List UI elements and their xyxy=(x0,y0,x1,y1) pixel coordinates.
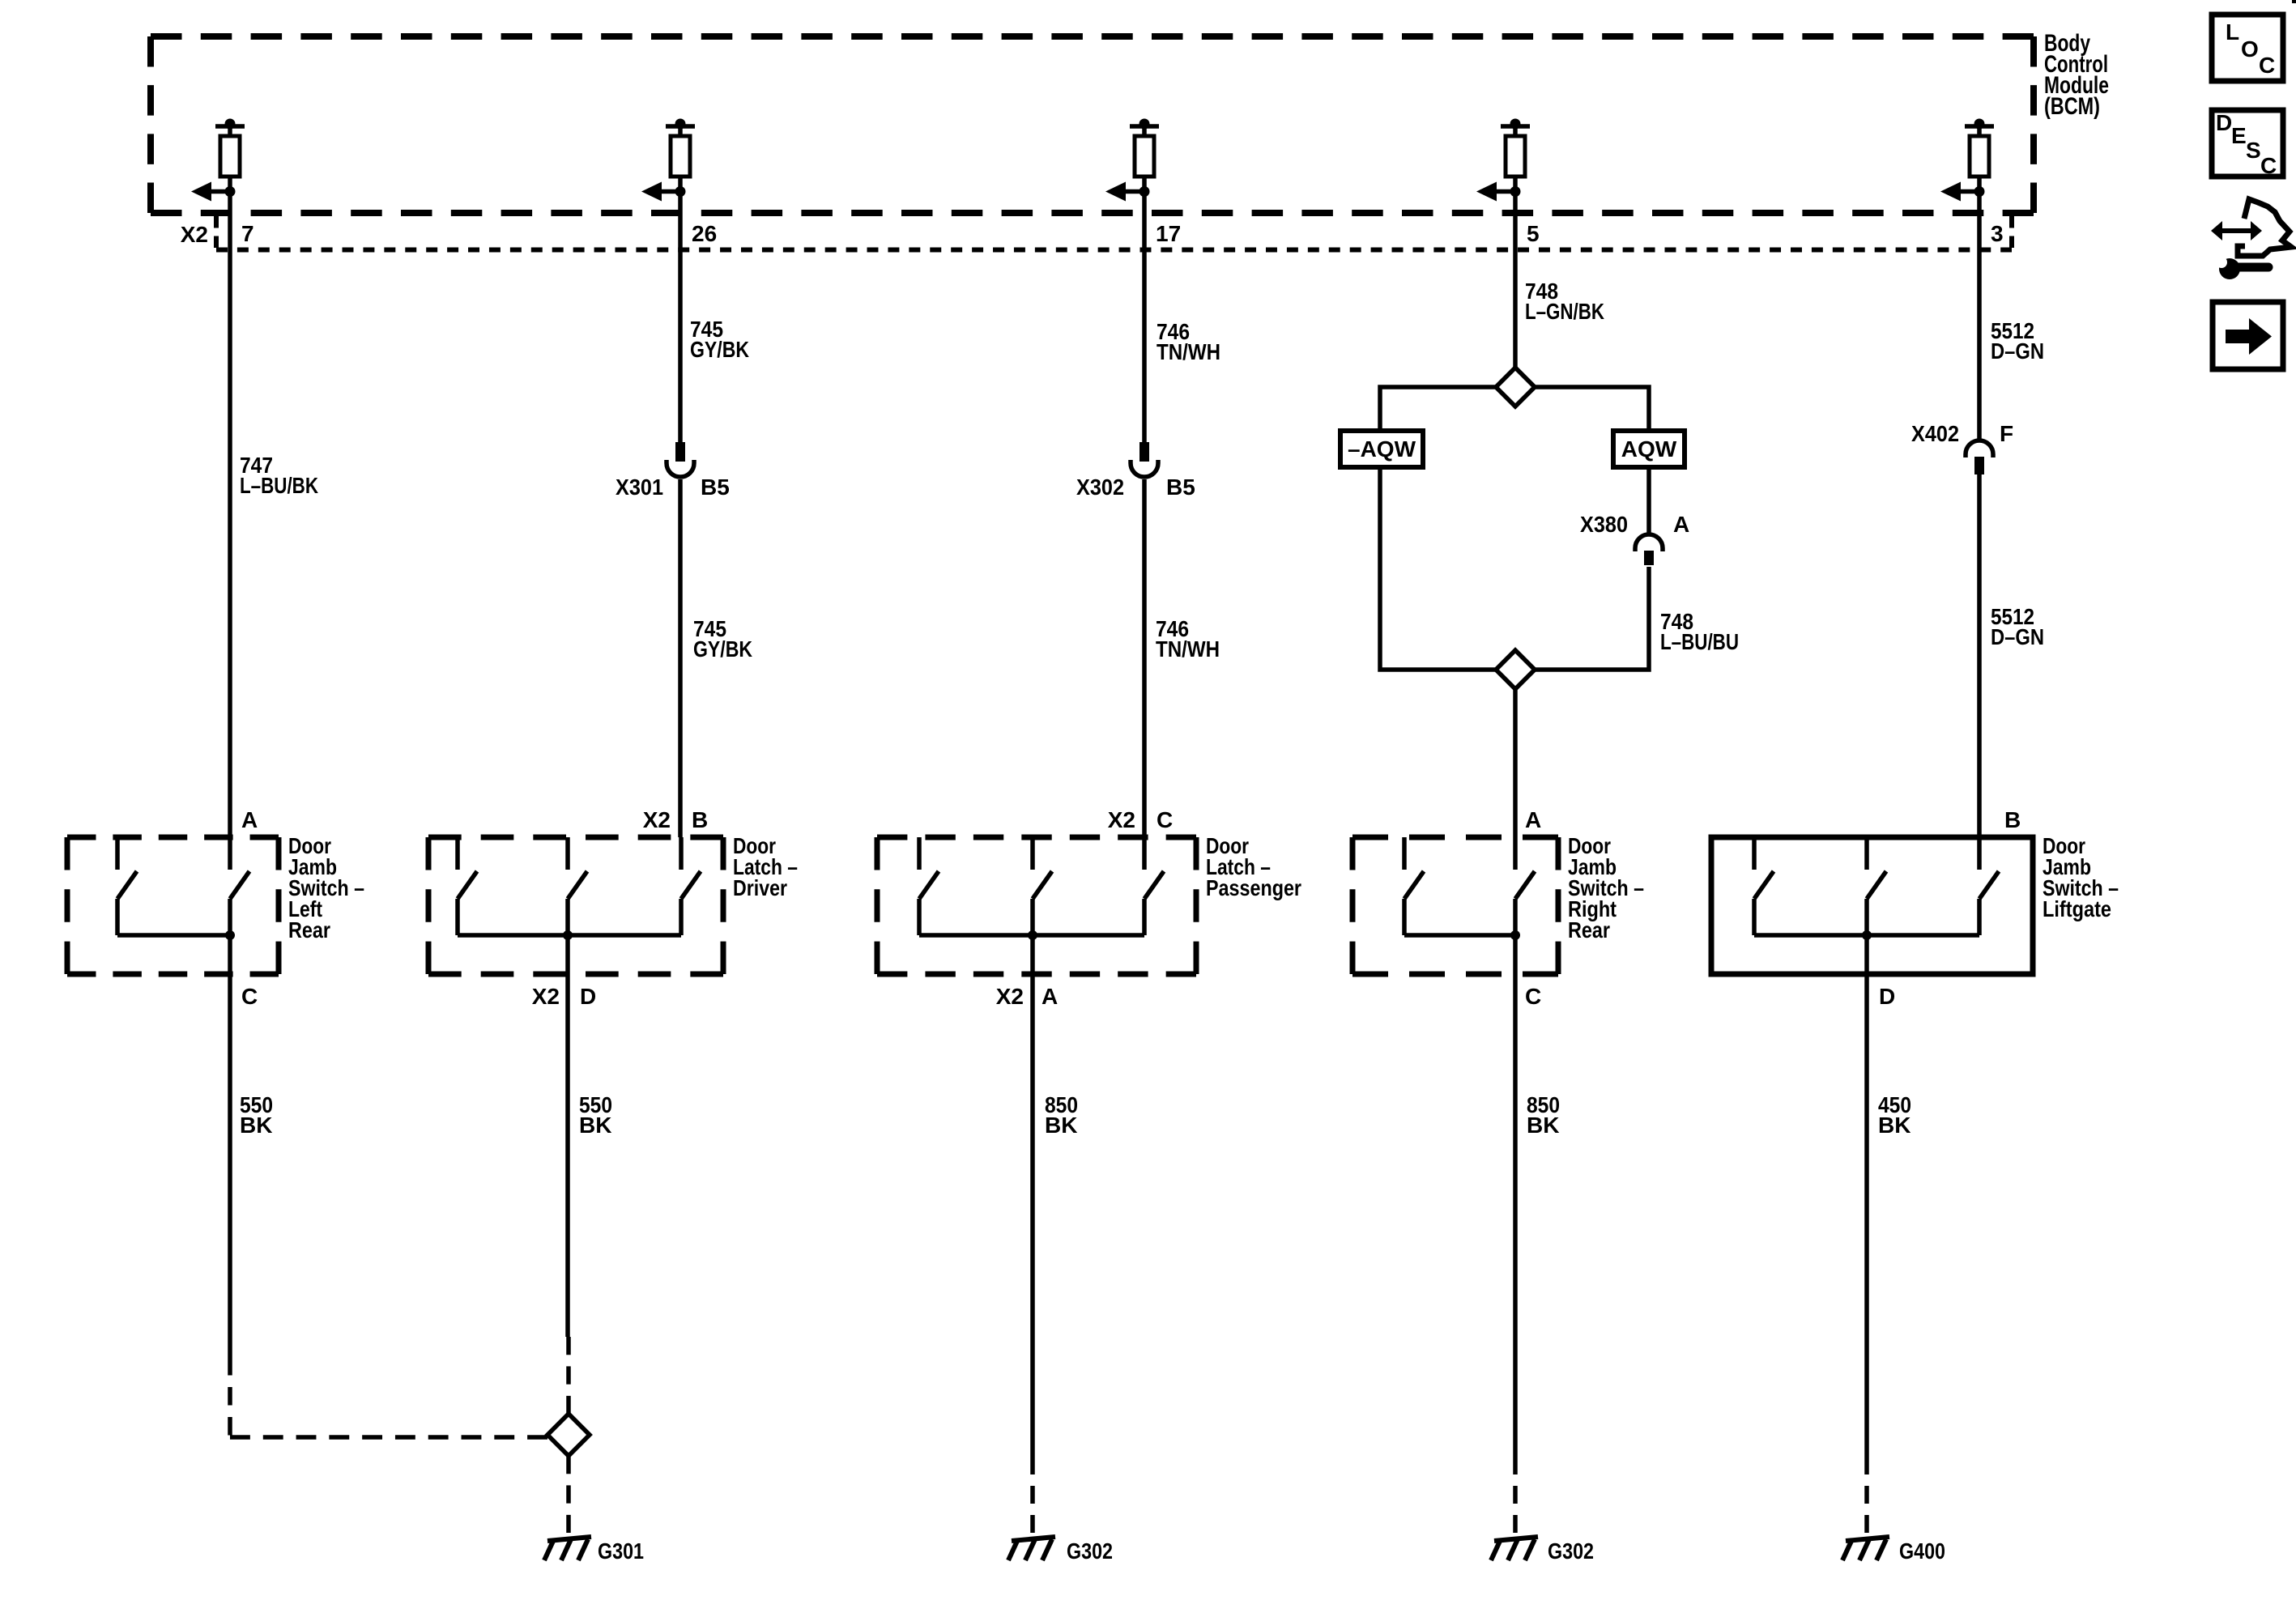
passenger latch switch contact 1 xyxy=(919,837,939,935)
wire label 745 GY/BK lower xyxy=(693,616,752,662)
passenger latch switch bus xyxy=(919,930,1144,940)
svg-text:O: O xyxy=(2241,36,2259,62)
svg-text:X301: X301 xyxy=(616,474,663,500)
wire label 747 L-BU/BK xyxy=(240,453,318,498)
svg-text:L–BU/BU: L–BU/BU xyxy=(1660,629,1739,654)
wire 748 L-BU/BU (X380 to lower splice) xyxy=(1535,567,1649,670)
svg-text:7: 7 xyxy=(241,221,254,246)
pin label C (left rear jamb) xyxy=(241,984,258,1009)
passenger latch switch contact 3 (pin C) xyxy=(1144,837,1164,935)
wire 748 L-GN/BK (BCM pin 5 to splice) xyxy=(1513,191,1518,368)
svg-text:A: A xyxy=(1673,512,1689,537)
wire label 550 BK (col 1) xyxy=(240,1092,273,1138)
ground label G400 xyxy=(1899,1538,1945,1564)
svg-text:C: C xyxy=(1525,984,1541,1009)
svg-text:X2: X2 xyxy=(181,222,208,247)
wire 747 L-BU/BK (BCM pin 7 to left-rear jamb switch) xyxy=(228,191,232,837)
svg-text:–AQW: –AQW xyxy=(1348,436,1416,462)
driver latch switch contact 1 xyxy=(458,837,477,935)
BCM internal resistor, pin 5 circuit xyxy=(1476,119,1530,202)
LOC legend box xyxy=(2212,15,2283,81)
ground label G301 xyxy=(598,1538,644,1564)
pin label X2 A (passenger latch bottom) xyxy=(996,984,1058,1009)
wire label 748 L-BU/BU xyxy=(1660,609,1739,654)
wire -AQW to lower splice xyxy=(1380,467,1496,670)
Door Latch - Passenger label xyxy=(1206,833,1301,900)
svg-text:C: C xyxy=(2259,53,2275,78)
svg-text:X402: X402 xyxy=(1911,421,1959,446)
svg-text:X2: X2 xyxy=(996,984,1024,1009)
svg-text:Passenger: Passenger xyxy=(1206,875,1301,900)
left-rear jamb switch contact 1 xyxy=(117,837,137,935)
forward reference arrow legend box xyxy=(2213,302,2283,369)
wire left branch to -AQW xyxy=(1380,387,1496,431)
ground symbol G301 xyxy=(544,1537,591,1560)
connector pin label B5 (X302) xyxy=(1166,474,1195,500)
pin label D (liftgate jamb) xyxy=(1879,984,1895,1009)
DESC legend box xyxy=(2212,110,2283,178)
connector label X402 xyxy=(1911,421,1959,446)
svg-text:C: C xyxy=(1157,807,1173,832)
svg-text:X302: X302 xyxy=(1076,474,1124,500)
svg-text:F: F xyxy=(2000,421,2013,446)
wiring repair legend icon (arrows, connector, wrench) xyxy=(2211,199,2291,279)
svg-text:G302: G302 xyxy=(1548,1538,1594,1564)
splice diamond (550 BK junction) xyxy=(547,1414,590,1456)
net AQW box xyxy=(1613,431,1685,467)
svg-text:BK: BK xyxy=(1045,1113,1077,1138)
wire 748 to right-rear jamb switch xyxy=(1513,689,1518,837)
BCM internal resistor, pin 26 circuit xyxy=(641,119,695,202)
inline connector X301 pin B5 xyxy=(667,442,694,477)
connector label X302 xyxy=(1076,474,1124,500)
wire label 746 TN/WH lower xyxy=(1156,616,1220,662)
svg-text:X380: X380 xyxy=(1580,512,1628,537)
page edge mark (top right artifact) xyxy=(2292,0,2296,3)
svg-text:D–GN: D–GN xyxy=(1991,338,2044,364)
svg-text:X2: X2 xyxy=(1108,807,1135,832)
inline connector X302 pin B5 xyxy=(1131,442,1158,477)
svg-text:17: 17 xyxy=(1156,221,1181,246)
pin 3 label xyxy=(1991,221,2004,246)
svg-text:C: C xyxy=(241,984,258,1009)
svg-text:Liftgate: Liftgate xyxy=(2043,896,2111,921)
Door Jamb Switch - Right Rear label xyxy=(1568,833,1644,943)
right-rear jamb switch bus xyxy=(1404,930,1520,940)
pin label C (right rear jamb) xyxy=(1525,984,1541,1009)
Door Jamb Switch - Right Rear dashed box xyxy=(1352,837,1558,974)
wire 746 TN/WH lower (X302 to passenger door latch) xyxy=(1142,479,1147,837)
svg-text:TN/WH: TN/WH xyxy=(1157,339,1220,364)
wire 850 BK (right rear jamb to G302) xyxy=(1513,935,1518,1533)
svg-text:S: S xyxy=(2246,138,2261,163)
wire 450 BK (liftgate jamb to G400) xyxy=(1864,935,1869,1533)
liftgate jamb switch contact 1 xyxy=(1754,837,1774,935)
wire right branch to AQW xyxy=(1535,387,1649,431)
pin label A (right rear jamb) xyxy=(1525,807,1541,832)
svg-text:Rear: Rear xyxy=(1568,917,1610,943)
left-rear jamb switch contact 2 (pin A) xyxy=(230,837,249,935)
wire label 5512 D-GN upper xyxy=(1991,318,2044,364)
BCM internal resistor, pin 7 circuit xyxy=(191,119,245,202)
ground symbol G302 (passenger) xyxy=(1008,1537,1055,1560)
wire 550 BK (left rear jamb to splice, partly dashed) xyxy=(230,935,547,1437)
svg-text:Rear: Rear xyxy=(288,917,330,943)
wire 5512 D-GN lower (X402 to liftgate jamb switch) xyxy=(1977,474,1982,837)
connector pin label F (X402) xyxy=(2000,421,2013,446)
svg-text:B: B xyxy=(2004,807,2021,832)
wire label 850 BK (col 3) xyxy=(1045,1092,1078,1138)
svg-text:X2: X2 xyxy=(532,984,560,1009)
net AQW label xyxy=(1621,436,1677,462)
pin label X2 C (passenger latch top) xyxy=(1108,807,1173,832)
svg-text:BK: BK xyxy=(1527,1113,1559,1138)
splice diamond lower (748) xyxy=(1496,650,1535,689)
svg-text:GY/BK: GY/BK xyxy=(690,337,749,362)
wire 745 GY/BK upper (BCM pin 26 to X301) xyxy=(678,191,683,442)
pin 5 label xyxy=(1527,221,1540,246)
ground label G302 (passenger) xyxy=(1067,1538,1113,1564)
wire label 850 BK (col 4) xyxy=(1527,1092,1560,1138)
wire label 745 GY/BK upper xyxy=(690,317,749,362)
wire 550 BK (driver latch to splice, partly dashed) xyxy=(568,935,569,1414)
svg-text:26: 26 xyxy=(692,221,717,246)
svg-text:3: 3 xyxy=(1991,221,2004,246)
connector X2 left notch xyxy=(214,216,219,248)
BCM internal resistor, pin 3 circuit xyxy=(1940,119,1994,202)
pin label B (liftgate jamb) xyxy=(2004,807,2021,832)
svg-text:G400: G400 xyxy=(1899,1538,1945,1564)
svg-text:AQW: AQW xyxy=(1621,436,1677,462)
svg-text:L–BU/BK: L–BU/BK xyxy=(240,473,318,498)
svg-text:Driver: Driver xyxy=(733,875,787,900)
svg-text:B5: B5 xyxy=(701,474,730,500)
Door Jamb Switch - Left Rear dashed box xyxy=(67,837,279,974)
driver latch switch contact 3 (pin B) xyxy=(681,837,701,935)
splice diamond upper (748) xyxy=(1496,368,1535,406)
svg-text:A: A xyxy=(241,807,258,832)
Door Latch - Driver label xyxy=(733,833,798,900)
wire 745 GY/BK lower (X301 to driver door latch) xyxy=(678,479,683,837)
svg-text:D–GN: D–GN xyxy=(1991,624,2044,649)
wire label 550 BK (col 2) xyxy=(579,1092,612,1138)
svg-text:BK: BK xyxy=(579,1113,611,1138)
wire label 748 L-GN/BK xyxy=(1525,279,1604,324)
Door Latch - Passenger dashed box xyxy=(877,837,1196,974)
connector pin label B5 (X301) xyxy=(701,474,730,500)
connector label X301 xyxy=(616,474,663,500)
ground label G302 (right rear) xyxy=(1548,1538,1594,1564)
liftgate jamb switch contact 2 (pin D) xyxy=(1867,837,1886,935)
inline connector X380 pin A xyxy=(1635,534,1663,565)
svg-text:G301: G301 xyxy=(598,1538,644,1564)
connector label X380 xyxy=(1580,512,1628,537)
right-rear jamb switch contact 2 (pin A) xyxy=(1515,837,1535,935)
svg-text:B: B xyxy=(692,807,708,832)
svg-text:L: L xyxy=(2226,19,2239,45)
Door Jamb Switch - Liftgate label xyxy=(2043,833,2119,921)
wire 746 TN/WH upper (BCM pin 17 to X302) xyxy=(1142,191,1147,442)
wire 5512 D-GN upper (BCM pin 3 to X402) xyxy=(1977,191,1982,442)
pin 26 label xyxy=(692,221,717,246)
inline connector X402 pin F xyxy=(1966,440,1993,474)
svg-text:A: A xyxy=(1525,807,1541,832)
Door Jamb Switch - Left Rear label xyxy=(288,833,364,943)
right-rear jamb switch contact 1 xyxy=(1404,837,1424,935)
svg-text:GY/BK: GY/BK xyxy=(693,636,752,662)
wire label 746 TN/WH upper xyxy=(1157,319,1220,364)
Body Control Module (BCM) dashed box xyxy=(151,36,2034,213)
ground symbol G400 xyxy=(1842,1537,1889,1560)
pin 7 label xyxy=(241,221,254,246)
Door Jamb Switch - Liftgate solid box xyxy=(1711,837,2033,974)
driver latch switch contact 2 (pin D) xyxy=(568,837,587,935)
connector label X2 xyxy=(181,222,208,247)
wire AQW to X380 xyxy=(1646,467,1651,536)
svg-text:A: A xyxy=(1042,984,1058,1009)
net -AQW label xyxy=(1348,436,1416,462)
Door Latch - Driver dashed box xyxy=(428,837,723,974)
svg-text:TN/WH: TN/WH xyxy=(1156,636,1220,662)
connector X2 right notch xyxy=(2009,216,2014,248)
svg-text:G302: G302 xyxy=(1067,1538,1113,1564)
pin 17 label xyxy=(1156,221,1181,246)
svg-text:C: C xyxy=(2260,153,2277,178)
wire 850 BK (passenger latch to G302) xyxy=(1030,935,1035,1533)
wire splice to G301 (dashed) xyxy=(566,1456,571,1533)
pin label X2 B (driver latch top) xyxy=(643,807,708,832)
svg-text:E: E xyxy=(2231,123,2247,148)
passenger latch switch contact 2 (pin A) xyxy=(1033,837,1052,935)
net -AQW box xyxy=(1340,431,1423,467)
BCM name label xyxy=(2044,30,2109,120)
svg-text:B5: B5 xyxy=(1166,474,1195,500)
pin label X2 D (driver latch bottom) xyxy=(532,984,596,1009)
pin label A (left rear jamb) xyxy=(241,807,258,832)
wire label 5512 D-GN lower xyxy=(1991,604,2044,649)
svg-text:D: D xyxy=(580,984,596,1009)
svg-text:D: D xyxy=(1879,984,1895,1009)
svg-text:5: 5 xyxy=(1527,221,1540,246)
liftgate jamb switch bus xyxy=(1754,930,1979,940)
connector X2 dotted boundary line xyxy=(216,248,2012,253)
BCM internal resistor, pin 17 circuit xyxy=(1105,119,1159,202)
wire label 450 BK (col 5) xyxy=(1878,1092,1911,1138)
svg-text:(BCM): (BCM) xyxy=(2044,93,2100,120)
connector pin label A (X380) xyxy=(1673,512,1689,537)
svg-text:D: D xyxy=(2216,110,2232,135)
left-rear jamb switch bus xyxy=(117,930,235,940)
svg-text:BK: BK xyxy=(1878,1113,1910,1138)
liftgate jamb switch contact 3 (pin B) xyxy=(1979,837,1999,935)
svg-text:X2: X2 xyxy=(643,807,671,832)
svg-text:L–GN/BK: L–GN/BK xyxy=(1525,299,1604,324)
driver latch switch bus xyxy=(458,930,681,940)
ground symbol G302 (right rear) xyxy=(1491,1537,1538,1560)
svg-text:BK: BK xyxy=(240,1113,272,1138)
